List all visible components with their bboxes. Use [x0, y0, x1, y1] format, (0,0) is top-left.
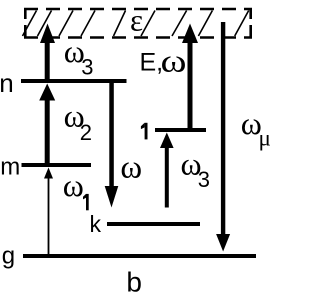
arrow omega1 (thin, g to m) — [44, 168, 53, 257]
svg-text:ε: ε — [130, 2, 143, 37]
level n — [21, 79, 127, 83]
level g — [23, 254, 256, 258]
arrow omega (thick, down from n) — [105, 81, 119, 208]
svg-text:b: b — [126, 267, 142, 297]
svg-text:k: k — [90, 211, 102, 237]
svg-text:ω: ω — [161, 43, 187, 79]
svg-text:3: 3 — [81, 54, 93, 79]
band bottom dashed edge — [24, 36, 252, 39]
svg-text:m: m — [0, 154, 20, 181]
continuum band (dashed hatched box) — [24, 8, 252, 39]
band left dashed edge — [24, 8, 27, 19]
level k — [107, 222, 200, 226]
svg-text:ω: ω — [63, 167, 84, 203]
arrow omega3 left (thick, n into band) — [40, 24, 55, 82]
band top dashed edge — [24, 8, 252, 11]
svg-text:ω: ω — [120, 149, 142, 185]
label 1 — [141, 123, 148, 140]
level 1 — [155, 128, 206, 132]
level m — [22, 163, 92, 167]
arrow omega_mu (long, down to g) — [216, 22, 230, 252]
arrow omega3 right (thick, up to level 1) — [160, 133, 174, 208]
svg-text:μ: μ — [259, 126, 271, 151]
svg-text:3: 3 — [198, 167, 210, 192]
arrow omega2 (thick, m to n) — [39, 84, 55, 166]
band right dashed edge — [249, 8, 252, 19]
svg-text:2: 2 — [80, 120, 92, 145]
svg-text:n: n — [0, 68, 14, 98]
svg-text:g: g — [2, 243, 15, 270]
arrow E,omega (thick, level 1 into band) — [182, 24, 198, 131]
band hatch diagonals — [23, 11, 249, 37]
